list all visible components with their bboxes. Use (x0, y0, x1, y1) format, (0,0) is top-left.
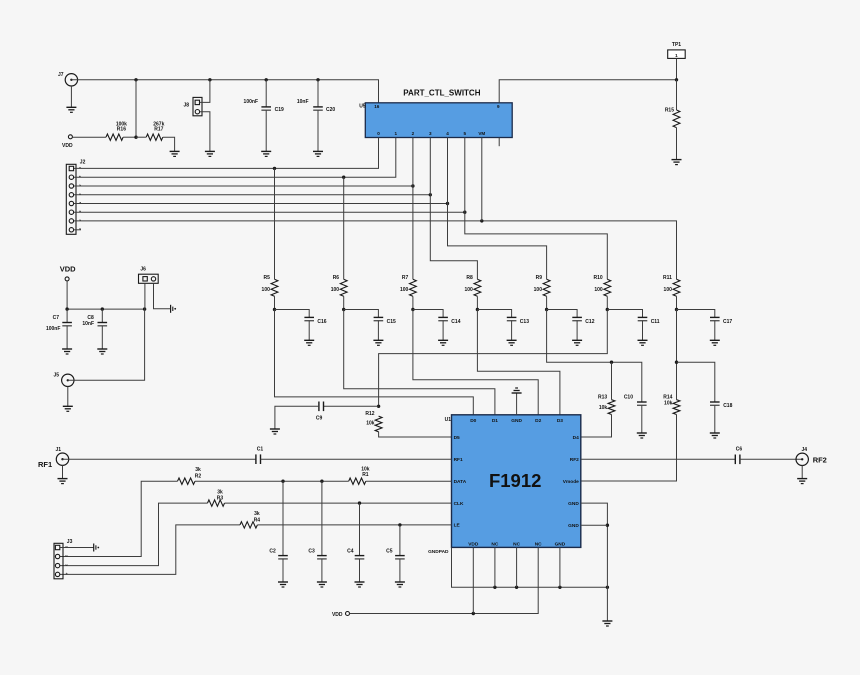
svg-text:C9: C9 (316, 415, 323, 421)
wire J1 to C1 (63, 458, 256, 460)
wire C17 to ground (714, 321, 716, 341)
capacitor C1 (256, 447, 264, 464)
connector J7 (58, 72, 78, 86)
resistor R2 (178, 467, 202, 484)
wire C6 to J4 (740, 458, 802, 460)
wire R15 to ground (676, 128, 678, 160)
svg-text:1: 1 (395, 131, 398, 136)
wire J2 pin8 stub (74, 229, 81, 231)
junction VDD rail at VDD pin (472, 612, 475, 615)
junction gnd bus at right gnd column (606, 586, 609, 589)
junction R12/C9 node (377, 405, 380, 408)
wire U1 GND right second pin (581, 524, 608, 526)
svg-text:GND: GND (555, 542, 566, 548)
svg-text:NC: NC (513, 542, 520, 548)
svg-text:C19: C19 (275, 107, 284, 113)
ground at J4 (797, 479, 807, 484)
resistor R5 (262, 275, 278, 297)
wire R7 to D2 (413, 310, 538, 415)
resistor R16 (106, 121, 127, 140)
svg-text:100: 100 (534, 287, 543, 293)
svg-text:R16: R16 (117, 126, 126, 132)
wire VDD to R16 (72, 136, 106, 138)
junction R16/R17 node (134, 136, 137, 139)
svg-text:100: 100 (464, 287, 473, 293)
wire C18 to ground (714, 405, 716, 433)
wire node to R15 (676, 80, 678, 110)
wire node to C15 (344, 310, 379, 318)
svg-text:3: 3 (429, 131, 432, 136)
svg-text:R10: R10 (594, 275, 603, 281)
ground at C12 (572, 340, 582, 345)
svg-text:C4: C4 (347, 549, 354, 555)
svg-text:GNDPAD: GNDPAD (428, 549, 449, 555)
wire node to C16 (275, 310, 310, 318)
wire C7 to ground (66, 326, 68, 349)
wire C4 column (359, 503, 361, 555)
svg-text:RF2: RF2 (570, 457, 579, 463)
resistor R7 (400, 275, 416, 297)
svg-text:10k: 10k (366, 421, 375, 427)
svg-text:NC: NC (491, 542, 498, 548)
svg-text:C11: C11 (651, 319, 660, 325)
wire J1 to ground (62, 465, 64, 478)
capacitor C4 (347, 549, 364, 559)
wire R10 to cap node (606, 296, 608, 309)
wire C10 to ground (641, 405, 643, 433)
ground at C10 (637, 433, 647, 438)
wire J5 to rail (68, 309, 145, 380)
wire bus row1 J2.1 to U5 pin0 (74, 138, 379, 169)
capacitor C17 (710, 317, 732, 324)
ground at C5 (395, 582, 405, 587)
junction right gnd column (606, 524, 609, 527)
wire C20 to ground (317, 110, 319, 151)
terminal VDD bottom (346, 612, 350, 616)
ground at C3 (317, 582, 327, 587)
wire R17 to ground (163, 137, 175, 151)
junction R9/C12 node (545, 308, 548, 311)
junction R10/C11 node (606, 308, 609, 311)
capacitor C8 (82, 315, 107, 327)
wire R9 to cap node (546, 296, 548, 309)
ground at C8 (97, 349, 107, 354)
svg-text:R4: R4 (254, 517, 261, 523)
wire R8 to cap node (476, 296, 478, 309)
junction gnd bus at GND pin (558, 586, 561, 589)
svg-text:C2: C2 (269, 549, 276, 555)
wire U5 pin3 to R8 column (430, 138, 477, 280)
capacitor C11 (638, 317, 660, 324)
junction CLK row at C4 (358, 501, 361, 504)
svg-text:RF2: RF2 (813, 455, 827, 464)
svg-text:D4: D4 (573, 435, 579, 441)
resistor R17 (146, 121, 164, 140)
wire rail tap down to R16/R17 node (135, 80, 137, 137)
wire U5 pin VM to row7 (481, 138, 483, 221)
resistor R13 (598, 394, 615, 414)
connector J2 (66, 160, 85, 235)
wire U5 pin 9 to TP1 node (499, 80, 676, 103)
wire bus row7 J2.7 to R11 column (74, 221, 677, 279)
svg-text:1: 1 (675, 53, 678, 58)
resistor R9 (534, 275, 550, 297)
wire C19 to ground (265, 110, 267, 151)
wire rail to C8 (101, 309, 103, 322)
wire U1 VDD pin down (472, 547, 474, 613)
wire R5 to cap node (274, 296, 276, 309)
svg-text:R1: R1 (362, 472, 369, 478)
wire GNDPAD to ground bus (452, 547, 608, 587)
connector J6 (139, 267, 159, 284)
wire J8 pin2 to ground (200, 112, 210, 152)
junction DATA row at C3 (320, 480, 323, 483)
svg-text:R15: R15 (665, 108, 674, 114)
ground at C13 (507, 340, 517, 345)
wire U5 pin5 to R10 column (465, 138, 608, 280)
svg-text:C12: C12 (585, 319, 594, 325)
ground at C19 (261, 151, 271, 156)
junction gnd bus at NC1 (493, 586, 496, 589)
svg-text:R13: R13 (598, 394, 607, 400)
wire C8 to ground (101, 326, 103, 349)
wire C1 to RF1 pin (261, 458, 452, 460)
svg-text:C1: C1 (257, 447, 264, 453)
svg-text:3k: 3k (195, 467, 201, 473)
capacitor C20 (297, 99, 336, 113)
svg-text:J2: J2 (80, 160, 86, 166)
junction row6 at pin5 column (463, 211, 466, 214)
svg-text:C6: C6 (736, 447, 743, 453)
svg-text:100: 100 (331, 287, 340, 293)
svg-text:4: 4 (446, 131, 449, 136)
svg-text:5: 5 (464, 131, 467, 136)
capacitor C5 (386, 549, 405, 559)
svg-text:RF1: RF1 (454, 457, 463, 463)
junction R11/C17 node (675, 308, 678, 311)
wire J7 to ground (70, 86, 72, 107)
wire J8 pin1 to rail (200, 80, 210, 103)
wire top rail from J7 to U5 pin 16 (71, 80, 378, 103)
wire C3 column (321, 481, 323, 555)
svg-text:D3: D3 (557, 418, 563, 424)
junction VDD rail at C7 (65, 307, 68, 310)
connector J3 (54, 539, 73, 579)
capacitor C14 (438, 317, 460, 324)
wire rail to C20 (317, 80, 319, 107)
wire R6 to cap node (343, 296, 345, 309)
svg-text:U1: U1 (445, 417, 452, 423)
capacitor C9 (316, 402, 324, 422)
junction R8/C13 node (476, 308, 479, 311)
wire VDD rail mid (67, 308, 145, 310)
ground at C2 (278, 582, 288, 587)
svg-text:0: 0 (377, 131, 380, 136)
svg-text:10k: 10k (664, 401, 673, 407)
wire J6 pin1 down to rail (144, 283, 146, 309)
resistor R4 (240, 511, 260, 528)
svg-text:J3: J3 (67, 539, 73, 545)
wire node to C9 (324, 405, 379, 407)
wire C2 to ground (282, 559, 284, 582)
svg-text:VDD: VDD (332, 612, 343, 618)
wire R14 to Vmode (581, 415, 677, 482)
svg-text:TP1: TP1 (672, 42, 681, 48)
wire U1 GND top pin (516, 393, 518, 415)
connector J8 (183, 97, 202, 115)
svg-text:3k: 3k (217, 489, 223, 495)
svg-text:R17: R17 (154, 126, 163, 132)
wire node to C14 (413, 310, 443, 318)
wire R13 to D4 (581, 415, 612, 438)
svg-text:C17: C17 (723, 319, 732, 325)
resistor R8 (464, 275, 480, 297)
wire J5 to ground (67, 387, 69, 407)
ground at J7 (66, 107, 76, 112)
ground at C15 (373, 340, 383, 345)
svg-text:9: 9 (497, 104, 500, 109)
wire C16 to ground (308, 321, 310, 341)
junction R13 top node (610, 361, 613, 364)
junction R6/C15 node (342, 308, 345, 311)
svg-text:R12: R12 (365, 411, 374, 417)
svg-text:GND: GND (511, 418, 522, 424)
wire row1 down to R5 (274, 168, 276, 279)
svg-text:C3: C3 (308, 549, 315, 555)
svg-text:R3: R3 (217, 496, 224, 502)
test point TP1 (668, 42, 686, 58)
resistor R6 (331, 275, 347, 297)
capacitor C3 (308, 549, 326, 559)
junction VDD rail at J6/J5 (143, 307, 146, 310)
capacitor C2 (269, 549, 287, 559)
wire C3 to ground (321, 559, 323, 582)
wire node to C12 (547, 310, 578, 318)
ground at C18 (710, 433, 720, 438)
ground at J8 (205, 151, 215, 156)
junction VDD rail at C8 (101, 307, 104, 310)
wire R2 to R1 (195, 480, 349, 482)
wire node to C13 (477, 310, 511, 318)
junction row2 to R6 column (342, 176, 345, 179)
ground at J1 (58, 479, 68, 484)
svg-text:GND: GND (568, 523, 579, 529)
wire U1 GND bottom pin down (559, 547, 561, 587)
svg-text:J8: J8 (183, 102, 189, 108)
wire R10 to R12/C9 node (379, 310, 608, 407)
no-connect flag at J3 pin1 (94, 544, 100, 552)
connector J1 (38, 447, 69, 469)
capacitor C7 (46, 315, 72, 332)
svg-text:J1: J1 (55, 447, 61, 453)
resistor R10 (594, 275, 611, 297)
wire C5 to ground (399, 559, 401, 582)
svg-text:R8: R8 (466, 275, 473, 281)
svg-text:D2: D2 (535, 418, 541, 424)
svg-text:VM: VM (478, 131, 485, 136)
ground (inverted) above U1 (512, 388, 522, 393)
svg-text:100nF: 100nF (46, 326, 60, 332)
ground at C16 (304, 340, 314, 345)
wire bus row5 J2.5 to pin4 column (74, 203, 448, 205)
wire C2 column (282, 481, 284, 555)
wire node to C17 (677, 310, 715, 318)
svg-text:VDD: VDD (468, 542, 479, 548)
svg-text:16: 16 (374, 104, 380, 109)
wire J4 to ground (801, 466, 803, 479)
svg-text:J4: J4 (801, 447, 807, 453)
svg-text:J7: J7 (58, 72, 64, 78)
wire R1 to DATA pin (366, 480, 452, 482)
ground at C17 (710, 340, 720, 345)
wire R8 to D3 (477, 310, 560, 415)
connector J4 (796, 447, 827, 465)
svg-text:C14: C14 (451, 319, 460, 325)
junction gnd bus at NC2 (515, 586, 518, 589)
wire bus row4 J2.4 to pin3 column (74, 194, 430, 196)
svg-text:C16: C16 (317, 319, 326, 325)
ground at C20 (313, 151, 323, 156)
wire U5 unconnected stub below pin 9 (498, 138, 500, 147)
wire R11 to R14 (676, 310, 678, 400)
svg-text:C7: C7 (53, 315, 60, 321)
wire R4 to LE pin (257, 524, 451, 526)
junction LE row at C5 (398, 523, 401, 526)
ground at R17 (170, 151, 180, 156)
resistor R11 (663, 275, 680, 297)
wire J3 pin3 to CLK row (60, 503, 208, 565)
svg-text:R6: R6 (333, 275, 340, 281)
capacitor C16 (304, 317, 326, 324)
wire R3 to CLK pin (225, 502, 452, 504)
wire TP1 to node (676, 58, 678, 79)
svg-text:C20: C20 (326, 107, 335, 113)
svg-text:Vmode: Vmode (563, 479, 579, 485)
svg-text:C13: C13 (520, 319, 529, 325)
no-connect flag at J6 pin2 (171, 305, 177, 313)
junction row5 at pin4 column (446, 202, 449, 205)
ground at C11 (638, 340, 648, 345)
wire bus row3 J2.3 to pin2 column (74, 185, 413, 187)
svg-text:R11: R11 (663, 275, 672, 281)
svg-text:2: 2 (412, 131, 415, 136)
wire C12 to ground (576, 321, 578, 341)
terminal VDD (68, 135, 72, 139)
wire J6 pin2 to NC flag (154, 283, 171, 309)
svg-text:F1912: F1912 (489, 470, 541, 491)
capacitor C19 (244, 99, 284, 113)
ground at C14 (438, 340, 448, 345)
wire U5 pin2 to R7 (412, 138, 414, 280)
wire node to C11 (607, 310, 642, 318)
svg-text:R5: R5 (263, 275, 270, 281)
wire C9 to ground (275, 406, 319, 429)
svg-text:100: 100 (664, 287, 673, 293)
svg-text:C18: C18 (723, 403, 732, 409)
wire row2 down to R6 (343, 177, 345, 279)
wire rail to C7 (66, 309, 68, 322)
junction row3 at pin2/R7 column (411, 184, 414, 187)
wire C14 to ground (442, 321, 444, 341)
wire junction to R17 (136, 136, 146, 138)
wire R5 to D0 (275, 310, 474, 415)
wire J3 pin4 to LE row (60, 525, 240, 575)
wire U1 GND right pins to ground (581, 503, 608, 621)
capacitor C10 (624, 394, 647, 405)
ground at C9 (270, 429, 280, 434)
ground at C4 (355, 582, 365, 587)
resistor R12 (365, 411, 382, 432)
wire C11 to ground (642, 321, 644, 341)
op-amp U1 F1912 box (445, 415, 581, 548)
wire VDD rail to U1 NC pin (350, 547, 539, 613)
svg-text:10nF: 10nF (297, 99, 309, 105)
svg-text:10k: 10k (599, 405, 608, 411)
svg-text:VDD: VDD (62, 143, 73, 149)
wire C4 to ground (359, 559, 361, 582)
svg-text:3k: 3k (254, 511, 260, 517)
wire rail to C19 (265, 80, 267, 107)
resistor R15 (665, 108, 680, 128)
capacitor C6 (735, 447, 742, 464)
wire VDD down to rail (66, 281, 68, 309)
junction top rail at C20 (316, 78, 319, 81)
svg-text:100: 100 (400, 287, 409, 293)
svg-text:D5: D5 (454, 435, 460, 441)
junction top rail at J8 (208, 78, 211, 81)
wire J3 pin2 to DATA row start (60, 481, 178, 556)
svg-text:D1: D1 (492, 418, 498, 424)
wire U1 NC1 pin down (494, 547, 496, 587)
svg-text:100nF: 100nF (244, 99, 258, 105)
junction DATA row at C2 (281, 480, 284, 483)
svg-text:100: 100 (594, 287, 603, 293)
ground at right gnd column (602, 621, 612, 626)
wire C5 column (399, 525, 401, 556)
svg-text:J6: J6 (140, 267, 146, 273)
wire C13 to ground (511, 321, 513, 341)
svg-text:R14: R14 (663, 394, 672, 400)
svg-text:R9: R9 (536, 275, 543, 281)
capacitor C18 (710, 402, 733, 409)
wire node to C18 (677, 362, 715, 402)
ground at R15 (672, 160, 682, 165)
svg-text:NC: NC (535, 542, 542, 548)
svg-text:LE: LE (454, 523, 461, 529)
wire node to R13 (611, 362, 613, 400)
wire C15 to ground (377, 321, 379, 341)
capacitor C15 (374, 317, 396, 324)
capacitor C13 (507, 317, 529, 324)
svg-text:R2: R2 (195, 473, 202, 479)
svg-text:CLK: CLK (454, 501, 464, 507)
junction top rail at R16/R17 tap (134, 78, 137, 81)
terminal VDD mid (65, 277, 69, 281)
wire R11 to cap node (676, 296, 678, 309)
svg-text:GND: GND (568, 501, 579, 507)
svg-text:100: 100 (262, 287, 271, 293)
svg-text:10nF: 10nF (82, 321, 94, 327)
wire R7 to cap node (412, 296, 414, 309)
resistor R1 (349, 467, 370, 485)
op-amp U5 PART_CTL_SWITCH box (359, 88, 512, 137)
junction row1 to R5 column (273, 167, 276, 170)
svg-text:DATA: DATA (454, 479, 467, 485)
svg-text:D0: D0 (470, 418, 476, 424)
svg-text:RF1: RF1 (38, 460, 52, 469)
svg-text:U5: U5 (359, 103, 366, 109)
svg-text:VDD: VDD (60, 265, 76, 274)
